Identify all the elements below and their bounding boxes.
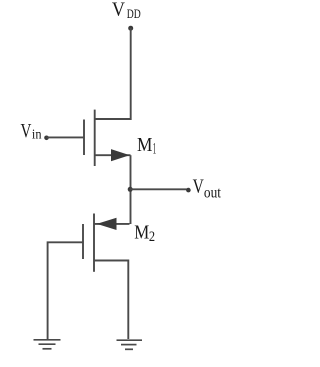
wire Vin to M1 gate bbox=[47, 136, 85, 138]
svg-text:M: M bbox=[134, 222, 149, 244]
wire output node to Vout terminal bbox=[130, 188, 188, 190]
svg-text:V: V bbox=[112, 0, 125, 21]
wire M1 source down to output node bbox=[130, 155, 132, 224]
ground left bbox=[34, 340, 61, 349]
transistor M1 gate bar bbox=[83, 120, 85, 156]
wire M2 gate to left ground bbox=[48, 242, 83, 339]
arrow on M1 source (pointing right) bbox=[111, 149, 130, 161]
label Vout bbox=[193, 176, 222, 202]
transistor M2 gate bar bbox=[82, 224, 84, 259]
transistor M2 channel bar bbox=[93, 214, 95, 272]
svg-text:M: M bbox=[137, 134, 153, 156]
ground right bbox=[117, 340, 143, 349]
node Vout terminal dot bbox=[186, 188, 191, 193]
node VDD dot bbox=[128, 26, 133, 31]
node output junction dot bbox=[128, 187, 133, 192]
svg-text:2: 2 bbox=[149, 229, 155, 245]
wire VDD rail down to M1 drain bbox=[95, 28, 131, 119]
label Vin bbox=[21, 121, 42, 143]
svg-text:1: 1 bbox=[153, 141, 156, 158]
arrow on M2 drain (pointing left) bbox=[97, 218, 117, 230]
svg-text:V: V bbox=[21, 121, 32, 142]
wire M2 source to right ground bbox=[94, 260, 128, 339]
label VDD bbox=[112, 0, 141, 21]
svg-text:out: out bbox=[204, 184, 222, 201]
node Vin dot bbox=[44, 136, 49, 141]
svg-text:DD: DD bbox=[127, 6, 141, 21]
label M1 bbox=[137, 134, 156, 157]
transistor M1 source lead bbox=[95, 154, 131, 156]
transistor M2 drain lead bbox=[94, 223, 130, 225]
transistor M1 channel bar bbox=[94, 110, 96, 166]
svg-text:in: in bbox=[32, 128, 42, 143]
svg-text:V: V bbox=[193, 176, 204, 198]
label M2 bbox=[134, 222, 155, 245]
transistor M2 source lead bbox=[94, 259, 128, 261]
